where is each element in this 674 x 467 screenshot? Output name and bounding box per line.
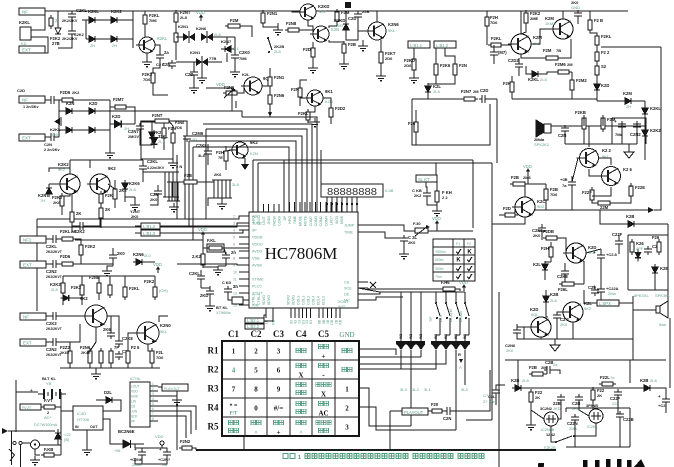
svg-text:K2KL: K2KL <box>88 9 99 14</box>
transistor Q3 <box>310 26 339 42</box>
wire w h20 <box>69 160 71 168</box>
svg-text:2K0: 2K0 <box>506 348 514 353</box>
resistor RV36 <box>601 115 616 132</box>
wire w g22 <box>177 264 249 265</box>
svg-text:NF: NF <box>23 315 29 320</box>
capacitor C25 <box>74 222 86 234</box>
svg-text:JUM2: JUM2 <box>252 222 262 226</box>
svg-text:C2N: C2N <box>162 62 170 67</box>
switch SW2 <box>435 302 440 319</box>
svg-text:2H: 2H <box>626 104 631 109</box>
label J3v <box>17 88 40 109</box>
svg-text:2K0: 2K0 <box>131 214 139 219</box>
svg-text:PLAYOUT: PLAYOUT <box>404 410 424 415</box>
wire w b6 <box>59 110 66 112</box>
wire w k12 <box>359 350 436 369</box>
wire w h50 <box>62 293 64 305</box>
connector J5 <box>20 236 46 243</box>
net box NB3 <box>141 223 160 229</box>
wire w b11 <box>74 129 89 131</box>
diode D14 <box>334 18 349 33</box>
wire res bottoms <box>70 363 152 368</box>
svg-text:C2N2: C2N2 <box>630 132 641 137</box>
wire w i33 <box>161 445 163 448</box>
svg-text:2Ma: 2Ma <box>569 426 578 431</box>
ground G20 <box>91 370 101 379</box>
capacitor C50 <box>567 414 579 426</box>
svg-text:XOUT: XOUT <box>338 300 349 304</box>
svg-text:2L8: 2L8 <box>180 15 188 20</box>
wire w n13 <box>368 297 380 300</box>
wire w q11 <box>579 403 589 416</box>
label Q19v <box>584 306 592 311</box>
svg-text:3L8: 3L8 <box>198 153 206 158</box>
svg-text:9K2: 9K2 <box>108 166 116 171</box>
wire w i21 <box>103 419 122 444</box>
resistor RV22 <box>434 61 451 78</box>
wire w m3 <box>358 288 380 292</box>
ground G29 <box>105 149 115 158</box>
wire w i17b <box>86 430 88 446</box>
svg-text:4: 4 <box>233 229 235 233</box>
ground G13 <box>409 74 419 83</box>
wire w h44 <box>81 276 83 285</box>
svg-text:RB: RB <box>272 319 276 324</box>
label RV80v <box>597 393 602 398</box>
capacitor C53 <box>513 327 521 336</box>
svg-text:IC4D: IC4D <box>77 411 86 416</box>
wire w p6 <box>535 200 546 210</box>
wire w c12 <box>193 62 195 72</box>
svg-text:2K2/2KVT: 2K2/2KVT <box>46 275 63 279</box>
wire w b13 <box>109 100 111 149</box>
svg-text:2K: 2K <box>535 395 540 400</box>
label C8v <box>239 56 248 61</box>
wire w e8 <box>521 54 543 58</box>
label SW1 <box>274 44 284 54</box>
svg-text:K2M: K2M <box>623 91 632 96</box>
svg-text:K2L: K2L <box>242 72 250 77</box>
label D15v <box>433 89 440 94</box>
svg-text:JKB3: JKB3 <box>267 216 271 225</box>
svg-text:C5: C5 <box>318 329 329 339</box>
wire w e16 <box>571 72 573 80</box>
wire w m6 <box>442 410 447 412</box>
wire w h29 <box>46 238 50 240</box>
wire w s16 <box>517 324 531 327</box>
capacitor C20 <box>222 250 236 261</box>
potentiometer arrow <box>224 88 236 98</box>
svg-text:PLAYOUT: PLAYOUT <box>164 387 180 391</box>
wire w g13 <box>246 299 249 301</box>
label C10v <box>192 137 197 142</box>
label D42v <box>550 298 557 303</box>
svg-text:VDDD: VDDD <box>252 243 263 247</box>
svg-text:2?: 2? <box>483 399 488 404</box>
node VDD1 <box>196 10 205 21</box>
svg-text:9K2: 9K2 <box>584 306 592 311</box>
svg-text:6: 6 <box>277 367 281 375</box>
wire w a11 <box>97 38 111 40</box>
svg-text:9KL: 9KL <box>388 28 396 33</box>
label C11v <box>198 153 206 158</box>
label D18v <box>626 104 631 109</box>
transistor Q13 <box>87 166 116 194</box>
wire w c33 <box>269 68 271 77</box>
wire w h34 <box>73 263 85 265</box>
diode DZ1 <box>221 46 234 52</box>
microphone arrow <box>50 117 61 137</box>
svg-text:EDL4: EDL4 <box>317 296 321 305</box>
switch SW6 <box>544 433 575 450</box>
svg-text:K2N6: K2N6 <box>388 22 399 27</box>
node VDD2 <box>198 227 207 238</box>
ground G7 <box>308 64 318 73</box>
svg-text:P/T: P/T <box>230 412 238 417</box>
wire w e23 <box>635 100 645 102</box>
wire w p17 <box>550 257 552 262</box>
svg-text:C1: C1 <box>228 329 239 339</box>
svg-text:R4: R4 <box>208 403 219 413</box>
wire w c17 <box>169 121 187 136</box>
ground G19 <box>102 267 112 276</box>
wire w g16 <box>197 181 214 183</box>
transistor Q18 <box>528 307 551 337</box>
wire w d13 <box>436 75 455 84</box>
wire w q7 <box>654 388 666 399</box>
wire w p11 <box>541 234 543 240</box>
wire w p16 <box>557 238 566 253</box>
svg-text:PLVT: PLVT <box>22 406 32 410</box>
svg-text:XTIME: XTIME <box>252 278 264 282</box>
capacitor C18 <box>630 121 641 137</box>
wire w i26 <box>158 395 177 397</box>
wire w q22 <box>530 402 532 421</box>
svg-text:2L8: 2L8 <box>540 77 547 82</box>
wire w c41 <box>308 118 315 122</box>
wire bus v189 <box>188 141 190 227</box>
label keypad column headers <box>228 329 355 339</box>
svg-text:C4: C4 <box>296 329 307 339</box>
net box NB5 <box>245 318 264 323</box>
oscillator X2 <box>586 404 603 429</box>
wire w a9 <box>119 19 133 21</box>
svg-text:LIN: LIN <box>131 400 137 404</box>
wire w g12 <box>228 295 230 300</box>
svg-text:F2H: F2H <box>541 246 549 251</box>
resistor RV28 <box>595 33 612 48</box>
svg-text:NF: NF <box>22 98 28 103</box>
label Q10v <box>602 154 610 159</box>
label RV79v <box>535 395 540 400</box>
switch SW4 <box>455 302 460 319</box>
svg-text:13: 13 <box>233 292 237 296</box>
transformer T1 <box>212 172 239 198</box>
wire w p9 <box>492 217 525 224</box>
wire w b15 <box>124 123 135 125</box>
label C52v <box>560 322 568 327</box>
wire w f11 <box>636 130 638 144</box>
wire w s15 <box>517 336 524 339</box>
wire w e24 <box>644 101 646 108</box>
svg-text:9DW3: 9DW3 <box>262 295 266 305</box>
svg-text:F2KL: F2KL <box>298 111 309 116</box>
svg-text:2KD: 2KD <box>200 293 208 298</box>
wire w f6 <box>621 124 623 126</box>
ground G8 <box>339 60 349 69</box>
wire w c27 <box>312 57 314 64</box>
label D2 D4 <box>90 43 117 48</box>
svg-text:7D6: 7D6 <box>143 77 151 82</box>
svg-text:F1: F1 <box>456 242 460 246</box>
resistor R81 <box>599 375 616 386</box>
svg-text:LOUT: LOUT <box>131 385 140 389</box>
wire w e22 <box>597 100 623 102</box>
wire w h37 <box>112 248 114 255</box>
capacitor C22 <box>200 288 214 298</box>
wire w q21 <box>495 396 497 405</box>
connector J8 <box>20 339 46 346</box>
svg-text:HC7806M: HC7806M <box>265 244 338 263</box>
label RV51v <box>51 287 58 292</box>
svg-text:+C2N?: +C2N? <box>158 458 171 462</box>
label C2Lv <box>488 394 496 404</box>
svg-text:F2B: F2B <box>529 365 537 370</box>
resistor R65 <box>41 447 57 457</box>
wire w h49 <box>154 276 156 287</box>
wire w k1 <box>264 308 266 318</box>
wire matrix group1 verticals <box>401 292 421 330</box>
wire w c8 <box>226 53 228 62</box>
label R78v <box>541 365 547 370</box>
wire cap box loop2 <box>611 118 613 144</box>
wire w q6 <box>525 387 648 389</box>
transistor Q14 <box>80 296 107 327</box>
wire w c1 <box>175 22 177 33</box>
transistor Q7 <box>365 22 399 40</box>
wire w h22 <box>90 183 92 185</box>
diode D17 <box>594 81 610 94</box>
wire w c19 <box>277 23 279 26</box>
node VDD3 <box>153 262 162 273</box>
label RV3v <box>143 77 151 82</box>
resistor R73 <box>543 229 560 240</box>
svg-text:X: X <box>321 391 326 399</box>
svg-text:MU3E: MU3E <box>298 215 302 226</box>
ground G12 <box>376 72 386 81</box>
wire w h28 <box>135 232 141 234</box>
svg-text:F2 2: F2 2 <box>601 50 610 55</box>
svg-text:2L8: 2L8 <box>214 32 221 37</box>
resistor RV32 <box>570 77 587 93</box>
wire w c7c <box>240 26 252 37</box>
svg-text:2K0: 2K0 <box>150 197 158 202</box>
diode D5 <box>63 101 76 114</box>
wire w p21 <box>564 277 566 283</box>
label C39v <box>533 233 541 238</box>
wire w c24 <box>336 11 338 12</box>
capacitor C31 <box>115 349 128 360</box>
wire w p1 <box>527 175 529 184</box>
resistor R49 <box>59 254 76 266</box>
capacitor C2 <box>68 28 76 37</box>
wire w h1 <box>48 184 50 186</box>
svg-text:27B: 27B <box>52 41 60 46</box>
wire bus v284 <box>283 160 285 212</box>
label C46v <box>553 406 561 411</box>
svg-text:7M6: 7M6 <box>149 18 158 23</box>
resistor RV_487 <box>485 14 498 29</box>
label x mark <box>370 282 376 288</box>
wire w b4 <box>45 136 48 138</box>
label RV21v <box>404 63 412 68</box>
switch SW1 <box>267 37 272 53</box>
wire w e3 <box>562 11 564 19</box>
svg-text:(M7): (M7) <box>498 50 507 55</box>
diode D18 <box>622 91 635 104</box>
diode pair D12 <box>201 31 221 43</box>
wire w c34 <box>269 104 271 112</box>
resistor RV43 <box>52 193 64 209</box>
svg-text:F22F: F22F <box>582 190 592 195</box>
resistor RV76 <box>630 239 644 255</box>
diode D4 <box>108 36 121 42</box>
svg-text:TIP: TIP <box>429 316 433 322</box>
wire w g15 <box>180 181 184 183</box>
svg-text:3C2N2: 3C2N2 <box>540 407 552 411</box>
svg-text:C22F: C22F <box>612 232 623 237</box>
wire w g1 <box>202 238 204 254</box>
wire w i16d <box>16 391 38 393</box>
svg-text:4: 4 <box>152 397 154 401</box>
wire w i36 <box>141 458 143 464</box>
wire w i8 <box>60 367 160 369</box>
wire w i34 <box>192 448 196 450</box>
svg-text:6: 6 <box>152 407 154 411</box>
label D40v <box>522 378 529 383</box>
label D22v <box>129 187 136 192</box>
wire w n1 <box>426 182 427 193</box>
diode array D29-31 <box>396 330 425 350</box>
wire w e12 <box>542 72 558 74</box>
label R40box <box>207 244 224 252</box>
wire w g23 <box>176 155 178 219</box>
svg-text:8IO3: 8IO3 <box>335 216 339 224</box>
label Q15v <box>160 329 168 334</box>
svg-text:X796Mz: X796Mz <box>216 310 231 315</box>
resistor RV21 <box>404 56 416 73</box>
wire bus v321 <box>320 150 322 184</box>
wire w n11 <box>455 289 460 291</box>
label D21v <box>40 198 45 203</box>
wire w c4 <box>175 42 177 60</box>
wire w h8 <box>100 203 102 208</box>
wire w d22 <box>415 132 417 145</box>
svg-text:F2N7: F2N7 <box>461 89 472 94</box>
svg-text:K2N1: K2N1 <box>190 50 201 55</box>
ground G1 <box>142 58 152 67</box>
svg-text:8PK3XL: 8PK3XL <box>634 293 649 298</box>
wire w b20 <box>110 106 115 108</box>
svg-text:2D6: 2D6 <box>385 56 393 61</box>
wire w c32 <box>269 86 271 95</box>
wire w b18 <box>152 122 164 128</box>
ground arrow G10 <box>241 158 249 170</box>
svg-text:2M6: 2M6 <box>523 175 532 180</box>
wire w h11 <box>114 199 116 208</box>
capacitor C_2M <box>150 188 162 197</box>
label D16v <box>540 77 547 82</box>
oscillator X1 <box>540 407 558 432</box>
capacitor C16 <box>558 125 569 138</box>
wire w f16 <box>572 158 578 182</box>
label U1 right pin names <box>344 224 355 303</box>
resistor RV6 <box>174 10 191 25</box>
wire w g11 <box>209 297 211 302</box>
wire w f22 <box>592 187 611 196</box>
label RV43v <box>53 200 61 205</box>
wire w a19 <box>155 45 160 55</box>
svg-text:(OH): (OH) <box>159 288 168 293</box>
wire w a18 <box>146 53 148 58</box>
svg-text:VDD: VDD <box>432 216 441 221</box>
wire w h12 <box>124 181 126 183</box>
svg-text:C2D: C2D <box>480 88 488 93</box>
svg-text:2D6: 2D6 <box>404 63 412 68</box>
wire w d2 <box>346 20 358 40</box>
wire w q20 <box>496 385 505 388</box>
svg-text:7D6: 7D6 <box>175 126 182 130</box>
svg-text:COM3: COM3 <box>314 216 318 226</box>
svg-text:+: + <box>277 429 281 437</box>
wire w n8 <box>368 232 404 238</box>
display DS1 box <box>321 184 383 197</box>
wire w c36 <box>235 101 237 108</box>
diode D26 <box>103 390 116 403</box>
capacitor C19 <box>564 177 576 188</box>
label C6v <box>128 135 142 139</box>
wire w h35 <box>75 239 81 245</box>
resistor RV67 <box>435 188 452 205</box>
label C45v <box>553 362 558 367</box>
wire w g6 <box>218 265 226 267</box>
ground G18 <box>130 201 140 210</box>
wire w i37b <box>16 430 55 432</box>
wire w r1 <box>466 419 492 421</box>
label C_2Mv <box>150 197 158 202</box>
diode D27 <box>118 429 135 448</box>
label C29v <box>46 327 63 331</box>
wire w m2 <box>380 296 403 298</box>
wire w p15 <box>550 242 552 247</box>
connector J4 <box>19 134 45 141</box>
wire w n3 <box>427 199 437 205</box>
wire w a15 <box>132 11 134 48</box>
svg-text:AVDD: AVDD <box>252 250 263 254</box>
svg-text:SPK3KL: SPK3KL <box>655 293 671 298</box>
resistor R63 <box>41 398 58 409</box>
capacitor C6 <box>128 123 144 134</box>
capacitor C15 <box>508 58 523 70</box>
svg-text:R3: R3 <box>208 384 219 394</box>
wire w n4 <box>436 205 438 207</box>
svg-text:^: ^ <box>254 431 258 437</box>
capacitor C10 <box>183 131 204 142</box>
wire w c39 <box>300 97 307 99</box>
node VDD5 <box>432 216 441 227</box>
svg-text:2H: 2H <box>112 43 117 48</box>
svg-text:COM4: COM4 <box>324 216 328 226</box>
